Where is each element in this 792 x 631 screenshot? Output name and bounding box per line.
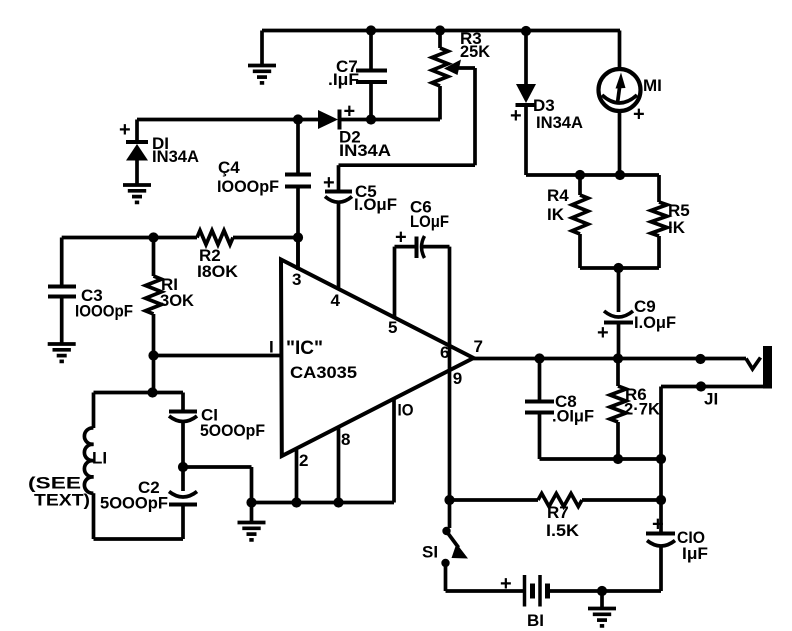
potentiometer R3 25K <box>339 29 491 165</box>
node C8 top junction <box>534 353 544 363</box>
node tank top junction <box>147 387 157 397</box>
node C9 top junction <box>613 263 623 273</box>
svg-text:I8OK: I8OK <box>197 262 239 281</box>
diode D2 IN34A <box>318 101 440 161</box>
node ring branch junction <box>656 454 666 464</box>
svg-text:+: + <box>652 514 664 536</box>
svg-text:SI: SI <box>422 543 438 562</box>
svg-text:R7: R7 <box>547 503 569 522</box>
svg-text:+: + <box>597 322 609 344</box>
svg-text:7: 7 <box>474 337 483 356</box>
wire pin 3 <box>296 238 300 271</box>
svg-text:+: + <box>500 573 512 595</box>
svg-text:Ç4: Ç4 <box>218 158 240 177</box>
capacitor C7 <box>328 31 387 120</box>
svg-text:R4: R4 <box>547 186 569 205</box>
meter M1 <box>599 31 662 176</box>
wire tank mid to ground row <box>183 467 252 503</box>
switch S1 <box>422 500 468 591</box>
node pin3 C4 R2 junction <box>293 232 303 242</box>
wire pin 1 row <box>154 354 282 358</box>
svg-text:IK: IK <box>668 218 686 237</box>
node C1 C2 junction <box>178 462 188 472</box>
svg-text:3: 3 <box>292 270 301 289</box>
svg-text:5: 5 <box>388 318 397 337</box>
svg-text:9: 9 <box>453 369 462 388</box>
diode D1 IN34A <box>119 119 199 202</box>
wire pin 2 <box>295 450 299 503</box>
resistor R1 30K <box>146 238 195 356</box>
resistor R2 180K <box>197 231 298 282</box>
svg-text:TEXT): TEXT) <box>34 491 90 510</box>
svg-text:25K: 25K <box>460 42 491 61</box>
svg-text:+: + <box>395 227 407 249</box>
svg-text:+: + <box>323 172 335 194</box>
node ground row junction 1 <box>246 497 256 507</box>
svg-text:4: 4 <box>331 291 341 310</box>
pin 3 label <box>292 270 301 289</box>
ground bottom <box>588 591 616 626</box>
wire bottom row left <box>446 589 524 593</box>
wire tank top row <box>94 391 184 395</box>
svg-text:2·7K: 2·7K <box>624 400 661 419</box>
ground top left <box>248 31 276 83</box>
svg-text:LI: LI <box>92 449 107 468</box>
wire ring branch vertical <box>659 387 663 501</box>
wire R1 to tank <box>152 356 156 393</box>
svg-text:I.OμF: I.OμF <box>634 313 676 332</box>
resistor R5 1K <box>651 175 690 268</box>
svg-text:5OOOpF: 5OOOpF <box>200 421 265 440</box>
ground IC row <box>238 503 266 540</box>
svg-text:IN34A: IN34A <box>339 141 391 160</box>
node M1 bottom junction <box>615 170 625 180</box>
svg-text:2: 2 <box>299 451 308 470</box>
svg-text:8: 8 <box>341 430 350 449</box>
pin 8 label <box>341 430 350 449</box>
svg-text:CA3035: CA3035 <box>290 363 357 382</box>
capacitor C2 5000pF <box>100 467 197 539</box>
node R4 top junction <box>575 170 585 180</box>
capacitor C10 1uF <box>646 500 708 591</box>
capacitor C8 .01uF <box>525 359 594 460</box>
jack J1 <box>661 346 768 409</box>
node R3 top junction <box>435 25 445 35</box>
node C4 top junction <box>293 114 303 124</box>
pin 5 label <box>388 318 397 337</box>
node pin8 ground junction <box>333 497 343 507</box>
resistor R4 1K <box>547 175 588 268</box>
svg-text:IO: IO <box>398 401 414 420</box>
node C10 top junction <box>656 495 666 505</box>
wire R4 R5 top row <box>526 173 659 177</box>
svg-text:"IC": "IC" <box>286 338 323 359</box>
node bottom ground junction <box>597 586 607 596</box>
svg-text:I.OμF: I.OμF <box>354 195 397 214</box>
capacitor C3 1000pF <box>48 238 133 362</box>
svg-text:I.5K: I.5K <box>546 521 580 540</box>
wire bottom row right <box>550 589 661 593</box>
node C7 bottom junction <box>366 114 376 124</box>
op-amp U1 IC CA3035 <box>281 260 474 457</box>
node pin9 R7 junction <box>444 495 454 505</box>
wire pin 8 <box>337 427 341 503</box>
inductor L1 <box>28 393 107 540</box>
svg-text:IOOOpF: IOOOpF <box>217 177 279 196</box>
wire pin 10 <box>392 400 396 503</box>
pin 1 label <box>269 338 274 357</box>
wire top bus <box>262 29 620 33</box>
svg-text:5OOOpF: 5OOOpF <box>100 494 168 513</box>
capacitor C5 1.0uF <box>323 165 397 290</box>
capacitor C6 1.0uF <box>395 198 450 320</box>
svg-text:LOμF: LOμF <box>410 212 449 231</box>
svg-text:IN34A: IN34A <box>152 147 199 166</box>
diode D3 IN34A <box>510 31 583 176</box>
pin 6 label <box>440 343 449 362</box>
battery B1 <box>500 573 548 630</box>
pin 7 label <box>474 337 483 356</box>
svg-text:+: + <box>510 105 522 127</box>
svg-text:IOOOpF: IOOOpF <box>75 302 133 321</box>
resistor R7 1.5K <box>450 494 662 541</box>
pin 2 label <box>299 451 308 470</box>
resistor R6 2.7K <box>610 359 661 460</box>
svg-text:+: + <box>344 101 356 123</box>
svg-text:IN34A: IN34A <box>536 113 583 132</box>
capacitor C1 5000pF <box>169 393 265 468</box>
node D3 top junction <box>521 26 531 36</box>
svg-text:.OIμF: .OIμF <box>552 407 594 426</box>
node J1 tip junction <box>695 354 705 364</box>
wire R2 row left <box>62 236 197 240</box>
capacitor C4 1000pF <box>217 120 311 270</box>
svg-text:MI: MI <box>643 76 662 95</box>
svg-text:IK: IK <box>547 205 565 224</box>
wire IC ground row <box>252 501 395 505</box>
svg-text:3OK: 3OK <box>160 291 195 310</box>
node R1 pin1 junction <box>148 350 158 360</box>
svg-text:+: + <box>633 104 645 126</box>
svg-text:+: + <box>119 119 131 141</box>
wire C8 R6 bottom row <box>540 457 662 461</box>
node R6 bottom junction <box>613 454 623 464</box>
capacitor C9 1.0uF <box>597 268 676 359</box>
pin 9 label <box>453 369 462 388</box>
wire R4 R5 bottom row <box>580 266 659 270</box>
node C9 R6 junction <box>613 353 623 363</box>
pin 4 label <box>331 291 341 310</box>
wire output row pin7 <box>474 357 747 361</box>
svg-text:.IμF: .IμF <box>328 70 359 89</box>
svg-text:JI: JI <box>704 390 718 409</box>
pin 10 label <box>398 401 414 420</box>
wire tank bottom row <box>94 537 184 541</box>
node R1 top junction <box>148 232 158 242</box>
svg-text:BI: BI <box>527 611 544 630</box>
wire D1 D2 row <box>137 118 318 122</box>
node C7 top junction <box>366 25 376 35</box>
svg-text:IμF: IμF <box>682 544 708 563</box>
node pin2 ground junction <box>291 497 301 507</box>
wire pin6 pin9 vertical <box>448 247 452 500</box>
